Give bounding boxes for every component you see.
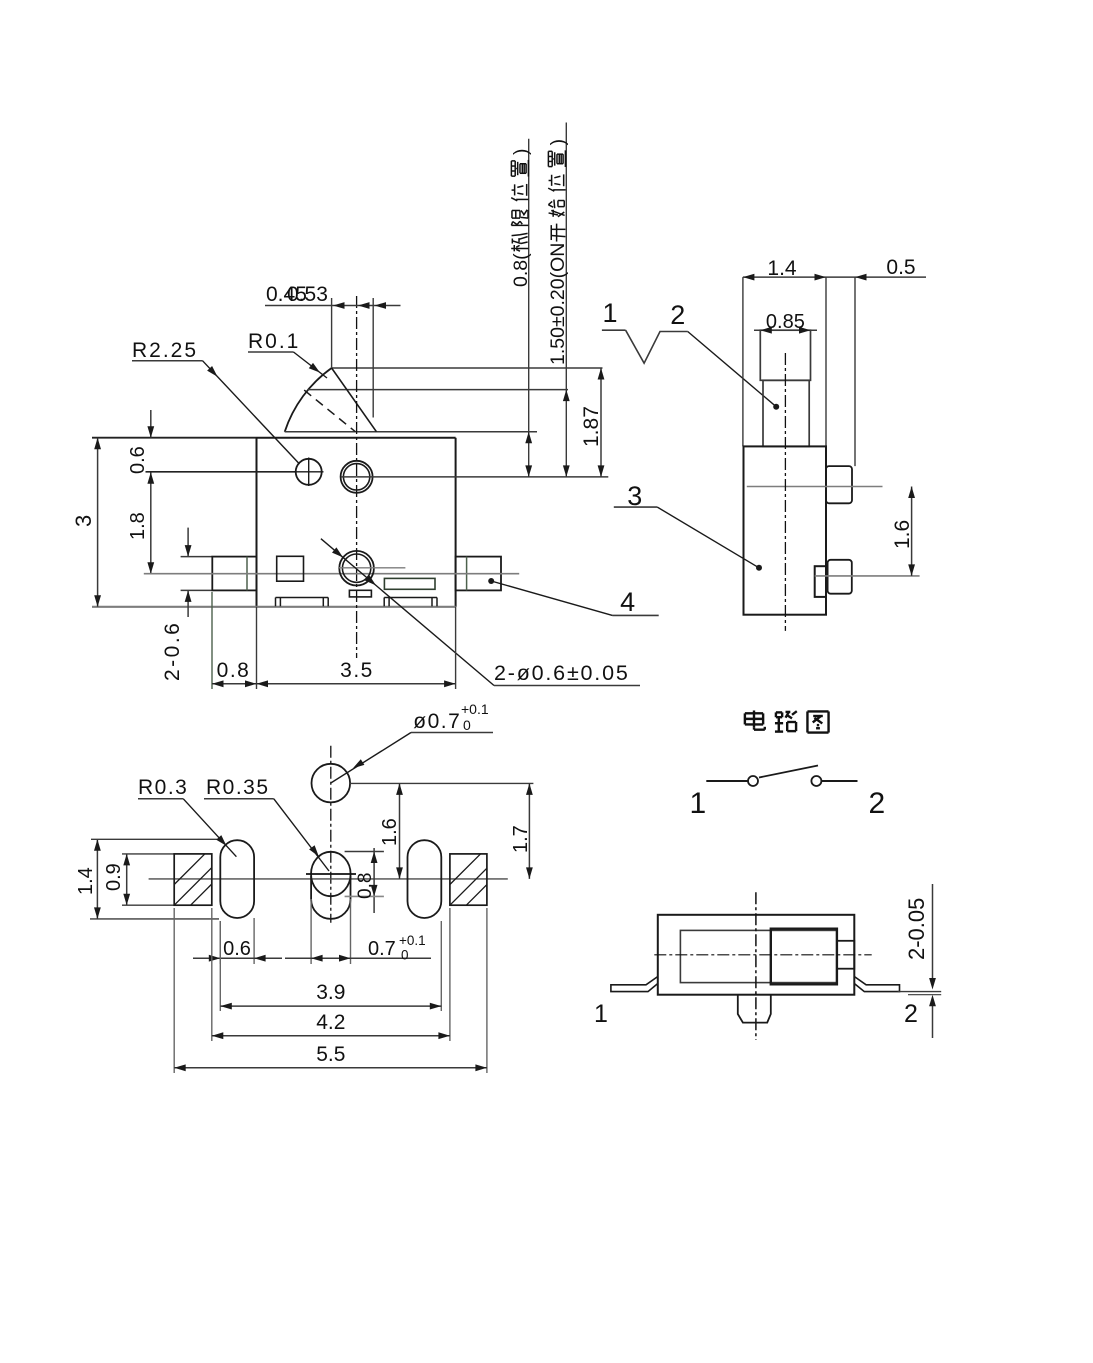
svg-text:4.2: 4.2 [316,1011,345,1034]
svg-text:1.6: 1.6 [891,520,914,549]
svg-text:): ) [510,149,532,156]
svg-text:+0.1: +0.1 [399,933,426,948]
svg-text:2-ø0.6±0.05: 2-ø0.6±0.05 [494,661,630,685]
svg-text:R0.3: R0.3 [138,776,188,799]
svg-text:0.6: 0.6 [223,938,251,960]
svg-text:1.87: 1.87 [580,406,603,447]
svg-text:R2.25: R2.25 [132,339,198,362]
svg-text:1: 1 [602,298,617,328]
svg-text:0.6: 0.6 [127,446,149,474]
svg-text:1.8: 1.8 [127,512,149,540]
svg-text:1.6: 1.6 [379,818,401,846]
svg-text:1: 1 [594,1000,608,1028]
svg-text:1.4: 1.4 [767,257,797,280]
svg-text:0.9: 0.9 [103,863,125,891]
svg-text:0.8: 0.8 [355,873,376,899]
svg-text:2-0.6: 2-0.6 [161,621,184,681]
svg-text:1: 1 [689,787,706,820]
svg-text:1.4: 1.4 [75,867,97,895]
svg-text:0.8(: 0.8( [510,253,532,287]
svg-text:2-0.05: 2-0.05 [904,898,929,960]
svg-text:ON: ON [547,243,569,272]
svg-text:2: 2 [670,300,685,330]
svg-text:0.7: 0.7 [368,938,396,960]
svg-text:3: 3 [71,515,96,527]
svg-text:4: 4 [620,587,635,617]
svg-text:R0.1: R0.1 [248,330,300,353]
svg-text:0.8: 0.8 [217,659,251,682]
svg-text:0.53: 0.53 [287,283,328,306]
svg-text:3.9: 3.9 [316,981,345,1004]
svg-text:2: 2 [904,1000,918,1028]
svg-text:ø0.7: ø0.7 [413,710,461,733]
svg-text:1.7: 1.7 [510,825,532,853]
svg-text:0: 0 [401,948,409,963]
svg-text:R0.35: R0.35 [206,776,270,799]
svg-text:3.5: 3.5 [340,659,374,682]
svg-text:0.85: 0.85 [766,311,805,333]
svg-text:2: 2 [869,787,886,820]
svg-text:5.5: 5.5 [316,1043,345,1066]
svg-text:+0.1: +0.1 [461,701,489,717]
svg-text:0.5: 0.5 [886,256,915,279]
svg-text:): ) [547,139,569,146]
svg-text:1.50±0.20(: 1.50±0.20( [547,271,569,365]
svg-text:0: 0 [463,717,471,733]
